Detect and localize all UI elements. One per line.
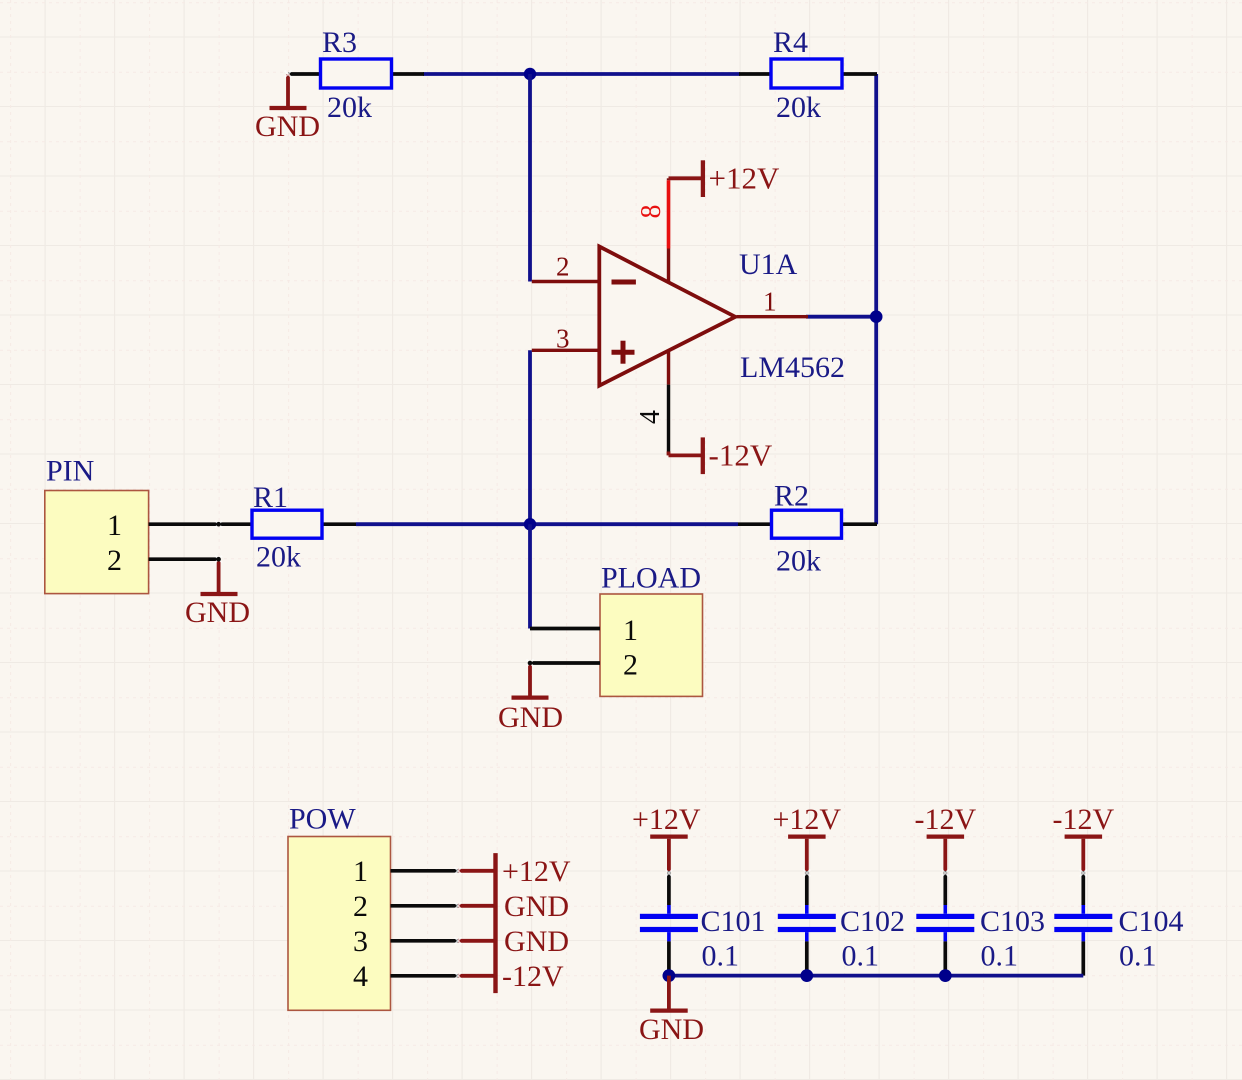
svg-text:C102: C102 [840,905,905,938]
svg-text:+12V: +12V [773,803,842,836]
svg-text:20k: 20k [256,541,301,574]
svg-text:PLOAD: PLOAD [601,562,701,595]
svg-text:2: 2 [353,890,368,923]
power +12V at POW pin 1 [458,855,571,888]
svg-text:-12V: -12V [914,803,976,836]
svg-text:U1A: U1A [739,248,798,281]
svg-text:GND: GND [498,701,563,734]
svg-text:GND: GND [185,596,250,629]
svg-text:R3: R3 [322,26,357,59]
svg-text:R1: R1 [253,481,288,514]
capacitor C101 [640,871,766,976]
svg-text:1: 1 [763,287,777,317]
pin 3 lead [391,939,459,943]
capacitor C102 [778,871,905,976]
svg-text:2: 2 [107,544,122,577]
power -12V at op-amp pin 4 [669,437,773,474]
wire junction down to op-amp pin 2 [528,74,532,282]
wire op-amp output to feedback column [806,315,876,319]
svg-text:0.1: 0.1 [702,939,740,972]
power GND at POW pin 3 [458,925,569,958]
power +12V at op-amp pin 8 [669,160,780,197]
svg-text:R4: R4 [773,26,808,59]
power bus bar at POW [493,853,497,993]
svg-text:-12V: -12V [1052,803,1114,836]
power +12V at C101 [632,803,701,871]
svg-text:C103: C103 [980,905,1045,938]
node junction top wire to inverting branch [524,68,536,80]
op-amp U1A LM4562 [599,247,845,386]
pin 4 lead [391,974,459,978]
svg-text:4: 4 [635,410,666,424]
connector PLOAD [530,562,703,697]
node junction mid wire to PLOAD branch [524,518,536,530]
svg-text:1: 1 [353,855,368,888]
svg-text:2: 2 [556,252,570,282]
svg-text:0.1: 0.1 [842,939,880,972]
pin 2 lead [149,557,219,561]
svg-text:4: 4 [353,960,368,993]
wire junction down to PLOAD pin 1 [528,524,532,628]
resistor R4 [739,26,877,124]
power +12V at C102 [773,803,842,871]
ground GND at capacitor bus [639,976,704,1046]
wire op-amp pin 3 down to mid junction [528,350,532,524]
pin 1 lead [149,522,219,526]
svg-text:+12V: +12V [709,161,780,196]
wire mid net R1 output to R2 input [356,522,738,526]
op-amp pin 3 non-inverting input [532,324,600,354]
svg-text:-12V: -12V [709,438,773,473]
resistor R2 [738,480,877,578]
op-amp pin 4 negative supply [635,351,669,452]
ground GND at R3 [255,74,320,143]
svg-text:+12V: +12V [632,803,701,836]
op-amp pin 1 output [737,287,809,317]
node bus junction at C102 [800,969,813,982]
capacitor C103 [916,871,1045,976]
svg-text:1: 1 [107,509,122,542]
ground GND at PLOAD pin 2 [498,663,563,734]
pin 2 lead [391,904,459,908]
svg-text:GND: GND [504,925,569,958]
power -12V at C103 [914,803,976,871]
wire right vertical feedback R4 to R2 [874,74,878,524]
node bus junction at C101 [663,969,676,982]
svg-text:20k: 20k [776,91,821,124]
wire ground bus under capacitors [669,974,1083,978]
pin 1 lead [391,869,459,873]
pin 1 lead [530,627,600,631]
power -12V at POW pin 4 [458,960,564,993]
op-amp pin 8 positive supply [636,178,669,282]
connector PIN [45,455,219,594]
svg-text:C101: C101 [701,905,766,938]
capacitor C104 [1054,871,1183,976]
svg-text:3: 3 [353,925,368,958]
svg-text:GND: GND [255,110,320,143]
svg-text:3: 3 [556,324,570,354]
svg-text:GND: GND [504,890,569,923]
connector POW [288,803,458,1011]
power GND at POW pin 2 [458,890,569,923]
svg-text:PIN: PIN [46,455,94,488]
svg-text:R2: R2 [774,480,809,513]
resistor R1 [219,481,356,574]
node bus junction at C103 [939,969,952,982]
svg-text:20k: 20k [776,545,821,578]
pin 2 lead [530,661,600,665]
svg-text:1: 1 [623,614,638,647]
svg-text:GND: GND [639,1013,704,1046]
svg-text:+12V: +12V [502,855,571,888]
svg-text:0.1: 0.1 [981,939,1019,972]
svg-text:LM4562: LM4562 [740,351,845,384]
wire top net R3 output to R4 input [423,72,740,76]
power -12V at C104 [1052,803,1114,871]
node junction op-amp output on feedback column [870,310,883,323]
resistor R3 [288,26,424,124]
svg-text:-12V: -12V [502,960,564,993]
svg-text:20k: 20k [327,91,372,124]
svg-text:POW: POW [289,803,356,836]
ground GND at PIN pin 2 [185,559,250,629]
svg-text:0.1: 0.1 [1119,939,1157,972]
svg-text:2: 2 [623,649,638,682]
svg-text:C104: C104 [1119,905,1184,938]
svg-text:8: 8 [636,205,667,219]
op-amp pin 2 inverting input [532,252,600,282]
